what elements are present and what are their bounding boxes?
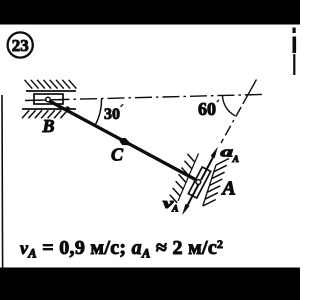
inclined guide hatching right of A [203,159,229,207]
label A [220,178,235,200]
rod C from B to A [49,101,200,182]
acceleration vector a_A [201,144,239,180]
svg-text:A: A [220,178,235,200]
fixed support hatching above guide at B [25,80,77,89]
label B [41,116,54,136]
svg-text:C: C [111,145,124,165]
fixed support hatching below guide at B [22,110,68,118]
pin at B [46,97,51,102]
svg-text:30: 30 [104,106,120,123]
angle arc 60 deg at centerline intersection [198,95,235,119]
velocity vector v_A [163,184,199,216]
label C [111,145,124,165]
svg-text:B: B [41,116,54,136]
svg-text:vA = 0,9 м/с; aA ≈ 2 м/с2: vA = 0,9 м/с; aA ≈ 2 м/с2 [20,237,223,261]
angle arc 30 deg at B [95,99,123,126]
upper guide rail at B [26,90,76,92]
inclined guide hatching left of A [170,154,199,203]
svg-text:23: 23 [12,36,29,55]
lower guide rail at B [22,108,76,110]
horizontal centerline (dash-dot) [25,94,264,100]
problem number badge 23 [8,32,33,57]
slider block A [188,167,210,198]
inclined centerline (dash-dot) [221,80,257,144]
pin at A (rod end) [196,180,201,185]
svg-text:60: 60 [198,99,216,119]
svg-text:A: A [171,205,178,215]
svg-text:A: A [232,155,239,165]
given values caption [20,237,223,261]
slider block B [34,94,63,104]
